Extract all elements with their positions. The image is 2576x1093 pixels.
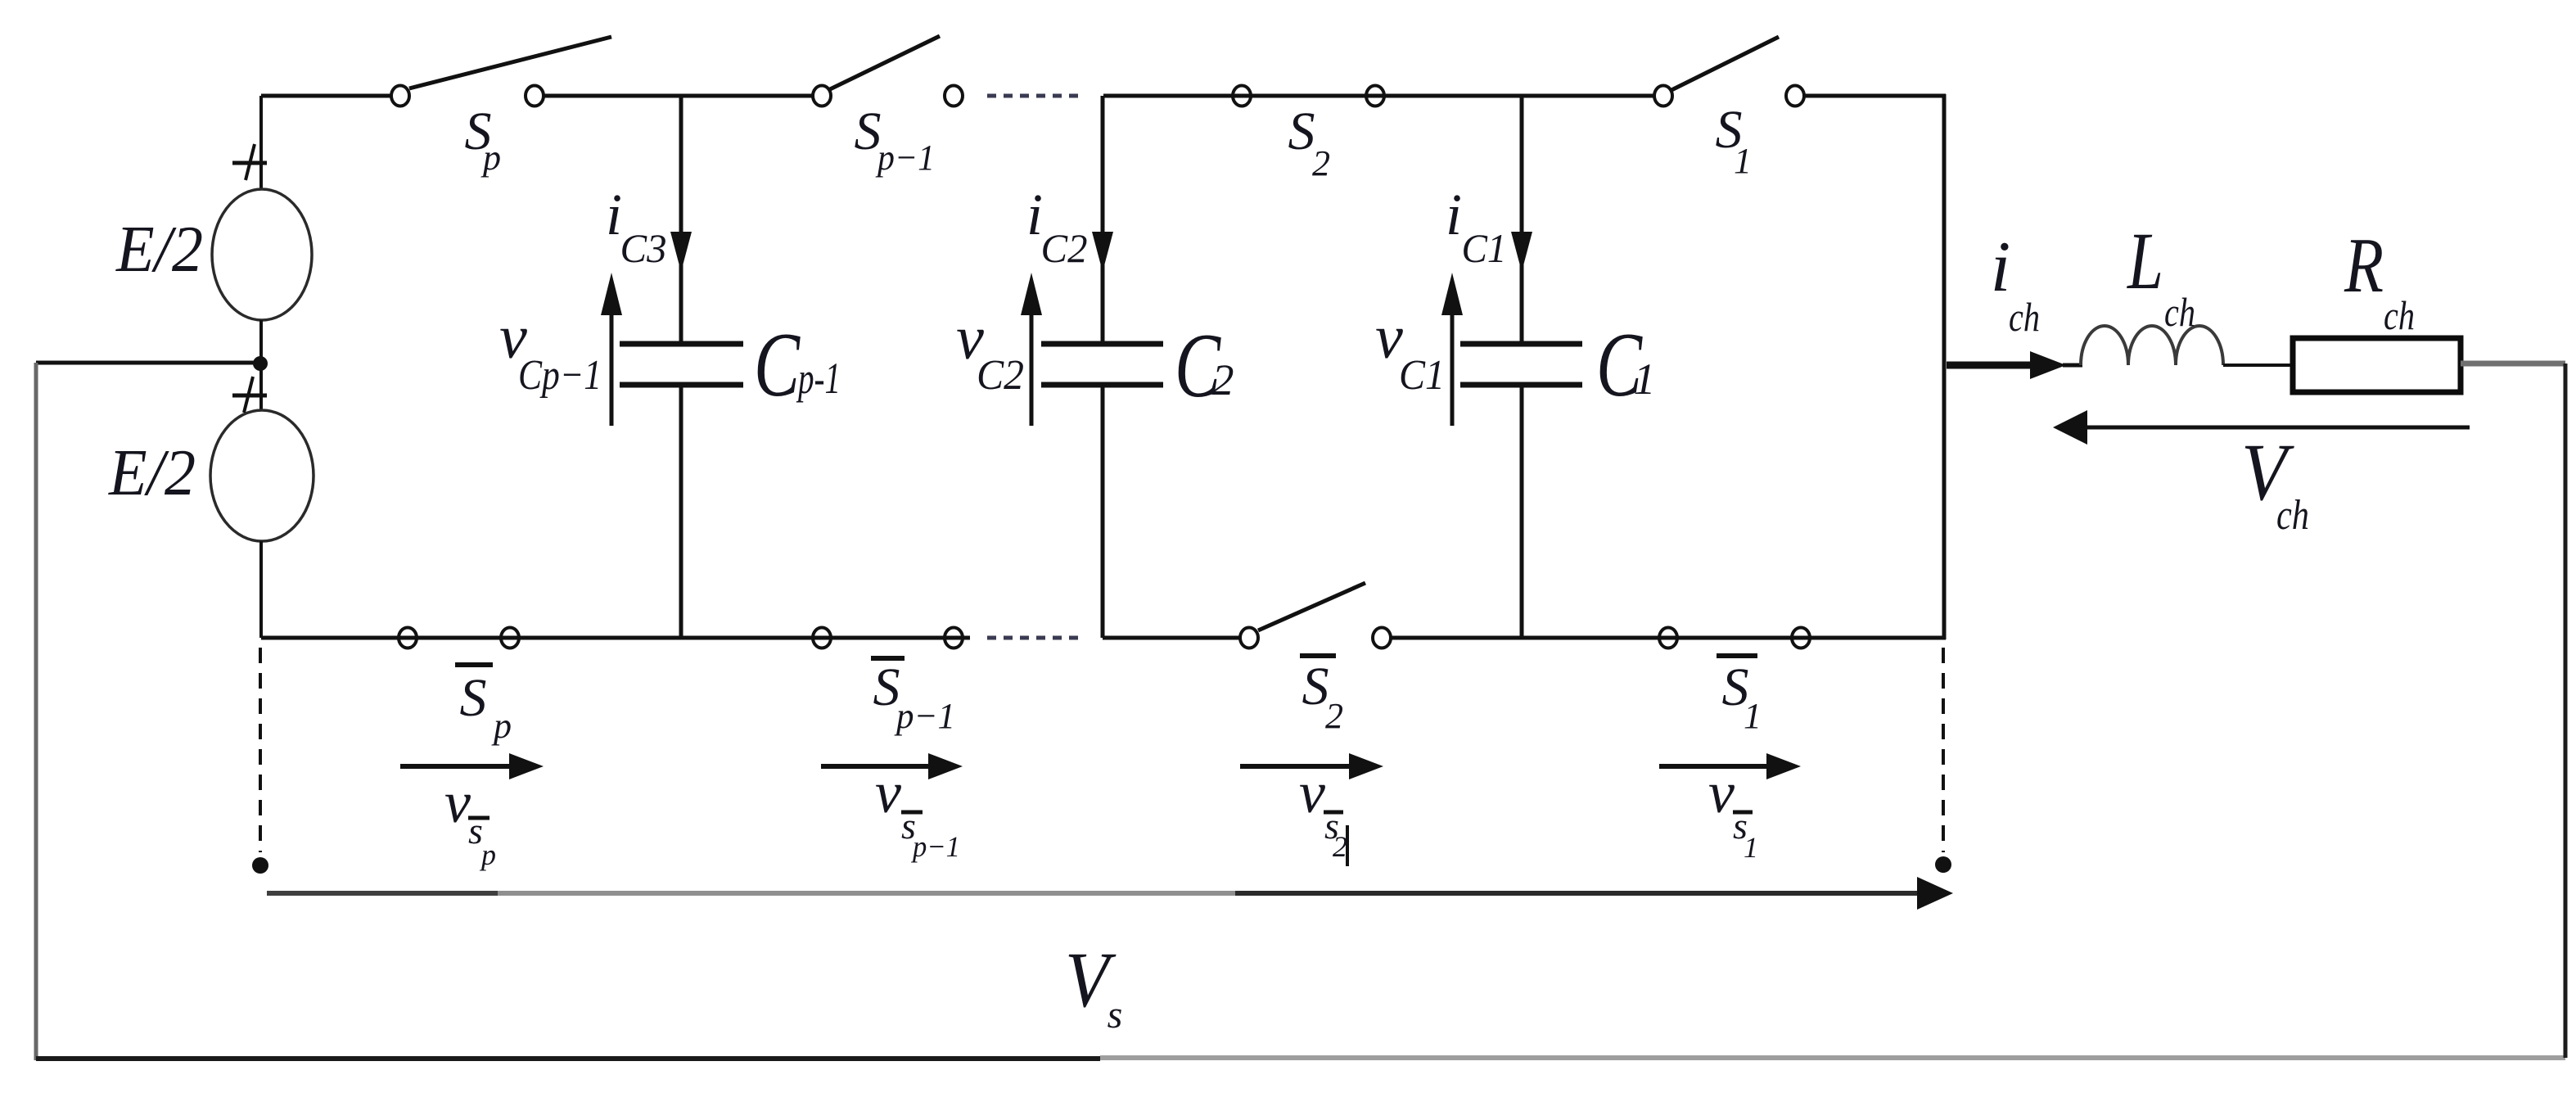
wire bottom bus segment 3	[1103, 636, 1240, 640]
switch S-bar_p (closed)	[399, 628, 519, 747]
svg-text:2: 2	[1325, 696, 1343, 736]
capacitor C_2 leg lower	[1101, 385, 1105, 638]
svg-text:ch: ch	[2276, 492, 2309, 539]
svg-text:E/2: E/2	[108, 437, 196, 509]
wire node to left	[36, 361, 261, 365]
V_s measurement line	[267, 877, 1953, 1037]
capacitor C_2 leg upper	[1101, 96, 1105, 343]
wire outer left vertical	[34, 363, 38, 1060]
wire arrow to inductor	[2063, 364, 2082, 368]
svg-text:v: v	[875, 760, 901, 825]
gate voltage arrow v_sbar_p	[400, 753, 544, 871]
capacitor C_1 plates	[1460, 314, 1656, 416]
svg-text:i: i	[1991, 228, 2010, 307]
switch S_1	[1654, 37, 1804, 181]
wire outer right vertical	[2564, 364, 2568, 1058]
wire bottom bus right segment	[1391, 636, 1946, 640]
svg-text:ch: ch	[2009, 294, 2040, 340]
svg-text:R: R	[2344, 222, 2384, 309]
svg-text:v: v	[1299, 760, 1325, 825]
capacitor C_p-1 plates	[620, 314, 841, 416]
svg-text:2: 2	[1312, 143, 1330, 183]
switch S-bar_2 (open)	[1240, 583, 1391, 736]
current arrow i_C2	[1026, 182, 1113, 272]
node dot left bottom	[252, 857, 268, 874]
svg-text:i: i	[1446, 182, 1462, 247]
wire E stack vertical	[259, 96, 263, 189]
wire top bus segment 2	[544, 94, 813, 98]
wire between sources	[259, 320, 263, 411]
capacitor C_1 leg lower	[1520, 385, 1524, 638]
inductor L_ch	[2081, 215, 2223, 365]
svg-text:1: 1	[1734, 141, 1752, 181]
switch S-bar_p-1 (closed)	[813, 628, 963, 737]
svg-text:ch: ch	[2164, 289, 2195, 335]
svg-text:C: C	[754, 314, 801, 416]
svg-text:Cp−1: Cp−1	[518, 352, 602, 399]
dotted continuation top	[987, 94, 1080, 98]
svg-text:p-1: p-1	[796, 354, 841, 403]
voltage source E/2 lower	[108, 377, 314, 541]
capacitor C_1 leg upper	[1520, 96, 1524, 343]
svg-text:v: v	[444, 770, 471, 835]
switch S_2 (closed)	[1233, 86, 1384, 184]
wire below lower source	[259, 541, 263, 638]
load voltage arrow V_ch	[2053, 410, 2470, 539]
svg-text:1: 1	[1744, 696, 1762, 736]
node (junction dot)	[253, 356, 268, 371]
svg-text:p: p	[491, 706, 512, 746]
svg-text:C2: C2	[1041, 225, 1088, 271]
svg-text:S: S	[1288, 102, 1315, 161]
switch S_p	[391, 37, 611, 178]
node dot right bottom	[1935, 856, 1951, 873]
svg-text:L: L	[2126, 215, 2163, 306]
svg-text:p: p	[479, 838, 496, 871]
wire top bus left segment	[261, 94, 391, 98]
capacitor C_p-1 leg upper	[679, 96, 683, 343]
svg-text:s: s	[1108, 993, 1123, 1037]
svg-text:ch: ch	[2384, 292, 2415, 338]
wire top bus right segment	[1804, 94, 1946, 98]
gate voltage arrow v_sbar_2	[1240, 753, 1383, 866]
svg-text:C1: C1	[1462, 225, 1507, 271]
svg-text:p−1: p−1	[894, 696, 955, 736]
wire resistor to right edge (gray)	[2461, 361, 2565, 367]
svg-text:p−1: p−1	[875, 138, 935, 178]
wire outer bottom line	[36, 1056, 1100, 1061]
switch S-bar_1 (closed)	[1659, 628, 1810, 737]
svg-text:E/2: E/2	[115, 214, 203, 286]
capacitor C_p-1 leg lower	[679, 385, 683, 638]
gate voltage arrow v_sbar_1	[1659, 753, 1801, 864]
svg-text:2: 2	[1212, 355, 1234, 404]
svg-text:S: S	[460, 668, 487, 728]
voltage source E/2 upper	[115, 144, 312, 320]
voltage arrow v_C1	[1375, 273, 1463, 426]
resistor R_ch	[2293, 222, 2461, 392]
voltage arrow v_C2	[956, 273, 1042, 426]
svg-text:C2: C2	[977, 352, 1024, 399]
svg-text:C1: C1	[1399, 352, 1445, 399]
svg-text:1: 1	[1744, 831, 1758, 864]
svg-text:C3: C3	[620, 225, 667, 271]
switch S_p-1	[813, 36, 963, 178]
dashed dropper left	[259, 648, 262, 852]
svg-text:1: 1	[1634, 355, 1656, 404]
wire right converter edge	[1942, 94, 1947, 639]
current arrow i_C1	[1446, 182, 1532, 272]
dashed dropper right	[1942, 648, 1945, 852]
dotted continuation bottom	[987, 636, 1080, 640]
capacitor C_2 plates	[1041, 315, 1234, 417]
load current arrow i_ch	[1947, 228, 2066, 379]
svg-text:p: p	[480, 138, 501, 178]
wire bottom bus left segment	[261, 636, 970, 640]
current arrow i_C3	[606, 182, 692, 272]
wire inductor to resistor	[2223, 364, 2293, 367]
svg-text:v: v	[1708, 760, 1735, 825]
gate voltage arrow v_sbar_p-1	[821, 753, 963, 863]
svg-text:p−1: p−1	[910, 830, 960, 863]
wire top bus segment 3	[1103, 94, 1654, 98]
voltage arrow v_Cp-1	[499, 273, 622, 426]
svg-text:2: 2	[1333, 830, 1347, 863]
